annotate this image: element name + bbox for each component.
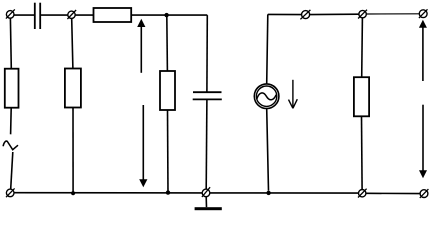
wire (9, 18, 12, 68)
arrow up (voltage arrow, right) (419, 20, 427, 81)
node T3 (bottom-left terminal) (6, 188, 15, 197)
resistor R1 (vertical, left) (5, 69, 19, 108)
node T4 (ground terminal) (202, 187, 210, 197)
resistor R5 (vertical, right) (354, 77, 369, 116)
resistor R2 (vertical) (65, 69, 81, 108)
node T2 (67, 10, 76, 19)
capacitor C2 (vertical) (193, 92, 222, 99)
wire (75, 14, 93, 16)
junction (266, 191, 270, 195)
resistor R3 (series, horizontal) (94, 8, 132, 22)
arrow up (voltage arrow, middle) (137, 19, 145, 73)
node T5 (300, 10, 310, 19)
wire (bottom rail, center) (210, 192, 359, 194)
wire (361, 116, 364, 189)
wire (166, 15, 169, 71)
wire (267, 109, 269, 191)
wire (bottom rail, right) (366, 192, 420, 194)
wire (131, 14, 207, 16)
junction (166, 190, 170, 194)
wire (10, 108, 13, 135)
arrow down (current direction of I1, open head) (289, 80, 298, 109)
wire (206, 15, 208, 91)
wire (72, 108, 74, 193)
wire (top rail, right circuit) (268, 13, 302, 15)
junction (71, 191, 75, 195)
capacitor C1 (35, 3, 40, 29)
resistor R4 (vertical, middle) (160, 71, 175, 110)
wire (41, 14, 68, 16)
wire (310, 13, 360, 15)
wire (167, 110, 170, 193)
wire (11, 152, 13, 189)
AC source V1 (tilde) (3, 141, 18, 150)
node T6 (358, 10, 367, 19)
wire (205, 197, 207, 208)
node T7 (top-right terminal) (419, 9, 428, 18)
AC current source I1 (254, 84, 279, 109)
wire (361, 18, 364, 77)
ground (195, 207, 222, 210)
arrow down (voltage arrow, right) (419, 105, 427, 179)
junction (164, 13, 168, 17)
wire (14, 14, 34, 16)
wire (267, 14, 268, 84)
wire (205, 99, 208, 189)
node T8 (358, 189, 367, 198)
wire (72, 19, 73, 69)
node T1 (top-left terminal) (6, 9, 15, 18)
wire (bottom rail, left) (14, 192, 202, 194)
wire (366, 13, 419, 15)
arrow down (voltage arrow, middle) (139, 105, 147, 187)
node T9 (bottom-right terminal) (420, 189, 429, 198)
